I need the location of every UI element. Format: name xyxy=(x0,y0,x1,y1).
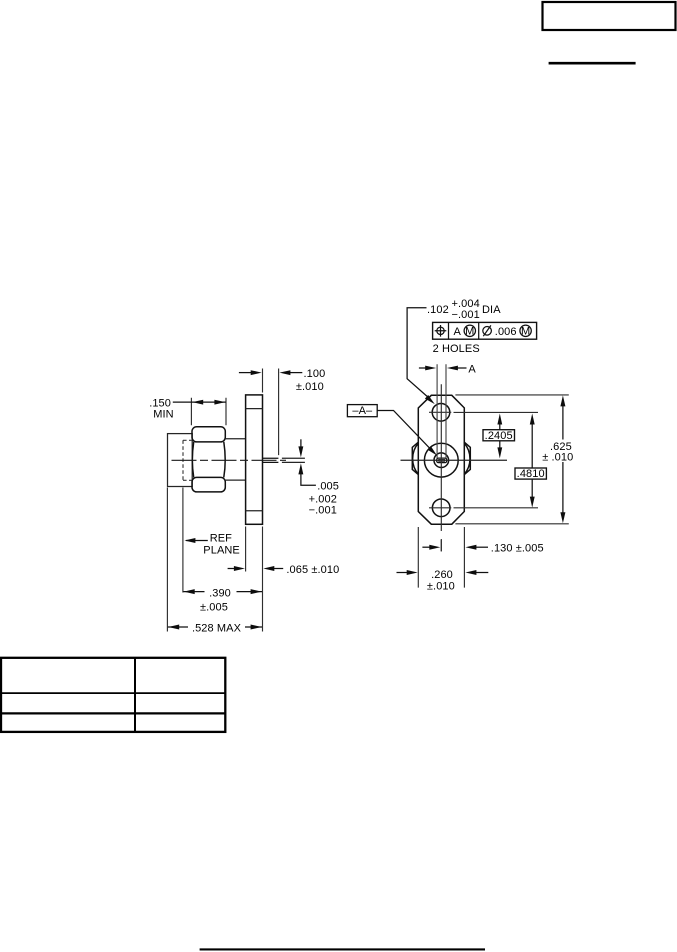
svg-text:DIA: DIA xyxy=(482,304,501,316)
dim .100 extension lines xyxy=(263,369,279,456)
svg-text:.4810: .4810 xyxy=(517,468,545,480)
left view: hidden lines (dashed) inside body xyxy=(183,440,192,480)
svg-text:.2405: .2405 xyxy=(485,430,513,442)
svg-text:A: A xyxy=(468,364,476,376)
right view: top mounting hole xyxy=(432,404,450,422)
svg-text:.065 ±.010: .065 ±.010 xyxy=(286,564,339,576)
dim .625 line and arrows xyxy=(562,404,564,440)
dim .150 MIN extension lines xyxy=(191,398,226,426)
REF PLANE label and arrow xyxy=(186,540,208,542)
right view: pin-width extension lines (A) xyxy=(437,364,446,458)
header underline xyxy=(549,62,636,65)
dim A arrows xyxy=(419,367,427,369)
right view: flange outline (octagonal plate) xyxy=(418,395,464,524)
right view: boss side bulges (arc + beveled flat) xyxy=(413,443,419,474)
right view: bottom mounting hole xyxy=(432,499,450,517)
svg-text:.130 ±.005: .130 ±.005 xyxy=(491,542,544,554)
left view extension lines below (ref plane, body, flange faces) xyxy=(182,488,184,593)
svg-text:±.010: ±.010 xyxy=(296,381,324,393)
svg-text:.102: .102 xyxy=(427,304,449,316)
svg-text:.005: .005 xyxy=(317,480,339,492)
svg-text:.390: .390 xyxy=(209,587,231,599)
svg-text:M: M xyxy=(521,325,530,337)
svg-text:−.001: −.001 xyxy=(309,504,337,516)
right view: vertical centerline xyxy=(440,384,442,551)
left view: horizontal centerline (dash-dot) xyxy=(172,459,287,461)
svg-text:.528 MAX: .528 MAX xyxy=(192,623,242,635)
svg-text:–A–: –A– xyxy=(352,405,373,417)
svg-text:PLANE: PLANE xyxy=(203,545,240,557)
right view: horizontal centerline xyxy=(401,459,508,461)
parts table (empty) xyxy=(1,658,225,732)
svg-text:±.005: ±.005 xyxy=(200,602,228,614)
right view: insulator circle xyxy=(434,453,449,468)
dim .065 arrows xyxy=(228,568,237,570)
dim .130 arrows xyxy=(422,546,431,548)
left view: hex nut top band xyxy=(192,427,225,442)
right view: center boss circle xyxy=(424,443,458,477)
dim .100 arrows xyxy=(239,372,253,374)
dim .102 leader xyxy=(407,308,429,399)
svg-text:A: A xyxy=(454,326,462,338)
svg-text:.006: .006 xyxy=(495,326,517,338)
dim .150 MIN dimension line and arrows xyxy=(173,401,226,403)
right view: pin tab cross-section xyxy=(437,458,447,463)
svg-text:M: M xyxy=(465,325,474,337)
svg-text:−.001: −.001 xyxy=(452,309,480,321)
left view: hex nut bottom band xyxy=(192,477,225,492)
svg-text:2 HOLES: 2 HOLES xyxy=(433,343,480,355)
svg-text:MIN: MIN xyxy=(153,408,173,420)
right view lower extension lines xyxy=(418,527,464,588)
dim .4810 (basic) box and line xyxy=(531,423,533,469)
diameter .006 M in frame xyxy=(483,327,492,336)
left view: center pin xyxy=(263,458,279,462)
dim .260 arrows xyxy=(397,572,409,574)
svg-text:±.010: ±.010 xyxy=(427,581,455,593)
right view extension lines (top, bottom, hole centers) xyxy=(455,394,568,396)
footer rule xyxy=(200,948,485,950)
feature control frame xyxy=(433,322,537,339)
left view: flange side profile xyxy=(246,395,263,524)
left view: hex nut middle band side arcs xyxy=(192,442,193,478)
svg-text:± .010: ± .010 xyxy=(542,451,573,463)
dim .005 pin extension lines xyxy=(282,458,305,462)
position symbol in frame xyxy=(437,327,444,334)
dim .2405 (basic) box and line xyxy=(499,423,501,430)
datum -A- leader to pin xyxy=(377,411,430,450)
dim .528 MAX dimension line and arrows xyxy=(168,626,188,628)
dim .390 dimension line and arrows xyxy=(183,591,204,593)
left view: connector body rectangle xyxy=(168,434,193,487)
header box (empty title block) xyxy=(543,2,676,30)
svg-text:.260: .260 xyxy=(431,569,453,581)
left view: barrel between hex and flange xyxy=(225,439,245,480)
svg-text:REF: REF xyxy=(210,533,232,545)
datum -A- box xyxy=(347,405,377,417)
svg-text:.100: .100 xyxy=(304,368,326,380)
dim .005 arrows and leader xyxy=(300,439,302,448)
